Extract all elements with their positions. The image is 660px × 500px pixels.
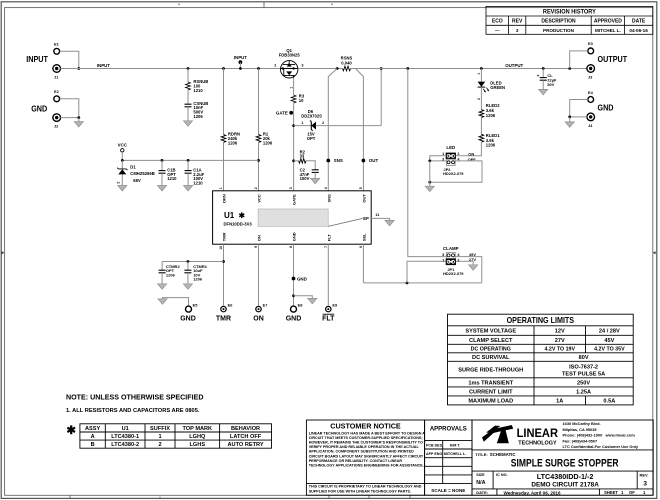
svg-text:KIM T.: KIM T. [450,444,461,448]
wire E3 to output rail [570,51,588,69]
svg-text:VERIFY PROPER AND RELIABLE OPE: VERIFY PROPER AND RELIABLE OPERATION IN … [309,445,420,449]
junction J2 ground node [77,116,80,119]
resistor R2 [294,160,299,162]
svg-text:E4: E4 [588,90,594,95]
resistor RSNS [342,66,350,71]
junction JP2 ground node lower [428,181,431,184]
wire RDRN branch upper [223,69,225,135]
svg-text:GND: GND [292,232,297,241]
capacitor CSNUB [185,104,192,107]
svg-text:+: + [537,74,540,79]
svg-text:PRODUCTION: PRODUCTION [543,28,575,33]
wire GND pin to E8 [293,244,295,305]
diode D1 CMHZ5266B zener [117,160,127,185]
svg-text:1ms TRANSIENT: 1ms TRANSIENT [468,380,513,386]
assembly option table [80,424,272,448]
terminal E5 [186,306,192,312]
wire CTMR1 to ground [187,273,189,284]
wire JP1 pin 2 to ground [456,260,474,262]
svg-text:TMR: TMR [216,316,231,323]
svg-text:ON: ON [468,151,474,156]
customer notice block [306,420,424,495]
wire DLED to RLED2 [480,87,482,110]
svg-text:FLT: FLT [326,234,331,242]
svg-text:SCALE = NONE: SCALE = NONE [431,488,465,493]
svg-text:CIRCUIT BOARD LAYOUT MAY SIGNI: CIRCUIT BOARD LAYOUT MAY SIGNIFICANTLY A… [309,454,424,458]
op-amp U1 LTC4380 DFN10DD-3X3 [213,191,372,244]
svg-text:27V: 27V [555,338,565,344]
capacitor CL [542,69,544,78]
svg-text:24 / 28V: 24 / 28V [599,329,620,335]
svg-text:Milpitas, CA 95035: Milpitas, CA 95035 [563,427,598,432]
svg-text:TITLE:: TITLE: [475,452,487,457]
svg-text:1206: 1206 [166,272,176,277]
svg-text:DC SURVIVAL: DC SURVIVAL [472,355,510,361]
svg-text:68V: 68V [133,178,141,183]
svg-text:1206: 1206 [193,114,203,119]
svg-text:Fax: (408)434-0507: Fax: (408)434-0507 [563,438,598,443]
svg-text:OUT: OUT [362,194,367,203]
terminal E9 [326,306,331,311]
svg-text:1: 1 [442,259,444,263]
svg-text:DATE: DATE [632,19,646,25]
svg-text:FLT: FLT [322,316,335,323]
svg-text:HOWEVER, IT REMAINS THE CUSTOM: HOWEVER, IT REMAINS THE CUSTOMER’S RESPO… [309,441,423,445]
svg-text:A: A [91,434,95,440]
resistor R1 [256,134,261,142]
svg-text:VCC: VCC [257,194,262,203]
ground at CTMR1 [183,284,192,289]
junction C1B [161,159,164,162]
wire E2 to J2 node [60,99,79,118]
svg-text:1.25A: 1.25A [576,389,591,395]
svg-text:80V: 80V [579,355,589,361]
svg-text:2: 2 [477,98,481,100]
wire JP2 pin 4 loop [430,161,482,182]
svg-text:SUFFIX: SUFFIX [150,426,170,432]
svg-text:1206: 1206 [228,140,238,145]
svg-text:OF: OF [629,490,635,495]
wire kelvin SNS [328,69,337,191]
wire E5 to ground [163,298,189,306]
svg-text:DDZ9702S: DDZ9702S [301,114,322,119]
operating limits table [448,314,634,405]
svg-text:GND: GND [598,104,614,113]
svg-text:N/A: N/A [476,480,485,486]
junction SEL at JP1 vertical [406,282,409,285]
svg-text:LINEAR TECHNOLOGY HAS MADE A B: LINEAR TECHNOLOGY HAS MADE A BEST EFFORT… [309,432,426,436]
svg-text:DESCRIPTION: DESCRIPTION [541,19,576,25]
svg-text:SNS: SNS [326,194,331,203]
svg-text:LTC4380-2: LTC4380-2 [111,442,139,448]
svg-text:HD2X2-079: HD2X2-079 [443,171,464,176]
svg-text:DEMO CIRCUIT 2178A: DEMO CIRCUIT 2178A [531,481,599,488]
svg-text:SEL: SEL [362,233,367,241]
wire DLED branch [480,69,482,82]
svg-text:GREEN: GREEN [490,85,505,90]
wire RDRN to U1 pin 1 [223,142,225,190]
terminal J2 [53,114,61,122]
wire D6 cathode to output rail [380,69,382,126]
ground at J4 [569,117,571,122]
svg-text:4.2V TO 35V: 4.2V TO 35V [594,347,625,353]
wire RSNS to output rail [351,68,587,70]
wire C1A to ground [187,173,189,185]
junction D6 anode [292,124,295,127]
svg-text:50V: 50V [547,82,554,87]
wire R3 to GATE node [293,103,295,191]
approvals block [425,420,472,495]
Linear Technology logo [482,425,513,443]
wire Q1 source to RSNS [298,68,343,70]
svg-text:04-06-16: 04-06-16 [629,28,648,33]
ground at EP [385,220,394,225]
svg-text:SYSTEM VOLTAGE: SYSTEM VOLTAGE [465,329,516,335]
wire FLT to E9 [327,244,329,305]
svg-text:OUTPUT: OUTPUT [598,55,628,64]
svg-text:U1: U1 [122,426,129,432]
svg-text:SUPPLIED FOR USE WITH LINEAR T: SUPPLIED FOR USE WITH LINEAR TECHNOLOGY … [309,490,411,494]
svg-text:3: 3 [289,187,293,189]
svg-text:0.040: 0.040 [341,60,352,65]
terminal E6 [221,306,226,311]
svg-text:SNS: SNS [334,158,343,163]
svg-text:3: 3 [516,28,519,33]
svg-text:U1: U1 [224,211,235,220]
capacitor C1B [161,160,163,170]
junction output to JP1 vertical [406,67,409,70]
svg-text:1: 1 [289,87,293,89]
ground at J2 [78,118,80,122]
border zone ticks [70,2,410,499]
svg-text:DATE:: DATE: [476,490,488,495]
diode DLED green LED [478,82,490,93]
svg-text:4.2V TO 19V: 4.2V TO 19V [544,347,575,353]
svg-text:CURRENT LIMIT: CURRENT LIMIT [469,389,513,395]
svg-text:1: 1 [477,73,481,75]
svg-text:1210: 1210 [193,88,203,93]
wire Q1 gate down [293,78,295,95]
svg-text:EP: EP [363,216,369,221]
svg-text:INPUT: INPUT [26,55,48,64]
resistor RLED1 [479,134,484,142]
wire kelvin OUT [355,69,363,191]
wire RSNUB branch [187,69,189,83]
ground at CL [539,89,548,94]
svg-text:3: 3 [301,64,303,68]
terminal E1 [54,48,60,54]
wire RSNUB to CSNUB [187,90,189,104]
revision history table [486,6,653,34]
wire TMR to E6 [223,244,225,305]
svg-text:APPLICATION. COMPONENT SUBSTI: APPLICATION. COMPONENT SUBSTITUTION AND … [309,450,414,454]
svg-text:12V: 12V [555,329,565,335]
junction R1 branch [257,67,260,70]
wire JP2 pin 3 to ground node [430,160,447,162]
wire E1 to input rail [60,51,79,68]
svg-text:LTC4380IDD-1/-2: LTC4380IDD-1/-2 [537,472,594,481]
jumper JP1 HD2X2-079 [446,252,456,265]
svg-text:1206: 1206 [486,143,496,148]
resistor RLED2 [479,110,484,118]
svg-text:OPT: OPT [307,136,316,141]
wire CL to ground [542,80,544,89]
capacitor C2 [312,170,319,173]
svg-text:1206: 1206 [263,140,273,145]
diode D6 DDZ9702S zener [294,121,382,131]
net flag SNS [326,159,330,163]
ground at D1 [118,186,127,191]
terminal E3 [588,48,594,54]
svg-text:SIZE: SIZE [476,473,485,477]
junction E3 branch [568,67,571,70]
wire C2 to ground [314,172,316,178]
svg-text:AUTO RETRY: AUTO RETRY [228,442,264,448]
svg-text:GND: GND [31,105,47,114]
svg-text:27V: 27V [469,257,476,262]
svg-text:10: 10 [219,246,223,250]
wire CSNUB to ground [187,107,189,121]
junction CL branch [542,67,545,70]
svg-text:E1: E1 [54,42,60,47]
ground at C2 [311,178,320,183]
wire INPUT rail [60,68,280,70]
svg-text:11: 11 [375,213,379,217]
svg-text:1210: 1210 [193,181,203,186]
svg-text:6: 6 [359,246,363,248]
svg-text:2: 2 [158,442,161,448]
svg-text:E8: E8 [298,303,304,308]
svg-text:1210: 1210 [167,176,177,181]
svg-text:MITCHELL L.: MITCHELL L. [444,452,466,456]
junction RSNUB branch [187,67,190,70]
svg-text:ASSY: ASSY [85,426,101,432]
svg-text:2: 2 [457,259,459,263]
junction D6 to rail [380,67,383,70]
svg-text:DRN: DRN [222,194,227,203]
junction E8 ground branch [292,294,295,297]
svg-text:7: 7 [324,246,328,248]
ground at C1A [184,186,193,191]
svg-text:LGHQ: LGHQ [189,434,206,440]
svg-text:100V: 100V [300,176,310,181]
svg-text:GND: GND [297,276,307,281]
svg-text:0.5A: 0.5A [603,398,615,404]
svg-text:1A: 1A [556,398,563,404]
resistor RDRN [221,134,226,142]
svg-text:8: 8 [289,246,293,248]
terminal E2 [54,96,60,102]
svg-text:9: 9 [254,246,258,248]
svg-text:CIRCUIT THAT MEETS CUSTOMER-SU: CIRCUIT THAT MEETS CUSTOMER-SUPPLIED SPE… [309,436,423,440]
wire R1 to U1 pin 2 [258,142,260,190]
overline FLT [323,313,335,315]
svg-text:✱: ✱ [239,211,246,220]
svg-text:NOTE: UNLESS OTHERWISE SPECIFI: NOTE: UNLESS OTHERWISE SPECIFIED [66,392,204,401]
svg-text:OUTPUT: OUTPUT [505,63,523,68]
terminal E8 [291,306,297,312]
wire C1B to ground [161,173,163,185]
junction RDRN branch [222,67,225,70]
wire VCC rail [122,159,258,161]
wire JP1 pin 1 down to SEL line [407,261,446,283]
svg-text:SIMPLE SURGE STOPPER: SIMPLE SURGE STOPPER [511,457,619,469]
svg-text:TEST PULSE 5A: TEST PULSE 5A [562,372,605,378]
terminal E7 [256,306,261,311]
svg-text:ISO-7637-2: ISO-7637-2 [569,365,598,371]
junction JP2 ground node [428,160,431,163]
svg-text:2: 2 [322,121,324,125]
svg-text:VCC: VCC [118,143,128,148]
svg-text:CMHZ5266B: CMHZ5266B [130,171,154,176]
svg-text:E3: E3 [588,41,594,46]
wire R1 branch upper [258,69,260,135]
svg-text:4: 4 [324,187,328,189]
svg-text:LED: LED [446,145,455,150]
svg-text:PERFORMANCE OR RELIABILITY. C: PERFORMANCE OR RELIABILITY. CONTACT LINE… [309,459,403,463]
wire E4 to J4 ground node [570,100,588,117]
svg-text:LGHS: LGHS [190,442,206,448]
svg-text:TMR: TMR [222,232,227,241]
svg-text:APPROVED: APPROVED [594,19,622,25]
svg-text:GND: GND [286,316,302,323]
svg-text:D1: D1 [130,165,136,170]
terminal J3 [587,65,595,73]
junction DLED branch [480,67,483,70]
jumper JP2 HD2X2-079 [446,153,456,166]
capacitor CTMR2 [161,262,163,271]
svg-text:1: 1 [301,121,303,125]
svg-text:IC NO.: IC NO. [496,473,508,477]
terminal J4 [587,113,595,121]
terminal J1 [53,65,61,73]
svg-text:GATE: GATE [276,111,288,116]
svg-text:BEHAVIOR: BEHAVIOR [231,426,260,432]
svg-text:HD2X2-079: HD2X2-079 [443,271,464,276]
svg-text:—: — [495,28,500,33]
svg-text:Wednesday, April 06, 2016: Wednesday, April 06, 2016 [503,490,561,495]
wire JP2 pin 1 to ground node [430,156,446,161]
ground at CSNUB [183,121,192,126]
svg-text:REV.: REV. [640,472,649,477]
svg-text:SURGE RIDE-THROUGH: SURGE RIDE-THROUGH [458,368,523,374]
svg-text:5: 5 [359,187,363,189]
wire RLED2 to RLED1 [480,118,482,135]
junction CTMR1 [187,260,190,263]
wire EP to ground [371,218,389,220]
svg-text:PCB DES.: PCB DES. [426,444,443,448]
svg-text:CUSTOMER NOTICE: CUSTOMER NOTICE [330,422,401,431]
svg-text:3: 3 [442,253,444,257]
svg-text:1: 1 [158,434,161,440]
svg-text:33: 33 [300,154,305,159]
svg-text:E7: E7 [263,303,268,308]
svg-text:ECO: ECO [492,19,503,25]
svg-text:LTC Confidential-For Customer: LTC Confidential-For Customer Use Only [563,444,639,449]
wire R2 to C2 [306,161,315,170]
wire SEL to select line [362,244,364,283]
resistor RSNUB [186,82,191,90]
svg-text:E5: E5 [193,303,199,308]
junction VCC rail at R1 [257,159,260,162]
ground at JP2 [425,186,434,191]
svg-text:B: B [91,442,95,448]
svg-text:REV: REV [512,19,523,25]
svg-text:LATCH OFF: LATCH OFF [230,434,262,440]
wire CTMR2 to ground [161,273,163,284]
wire output rail to JP1 pin 3 [408,69,446,257]
net flag GND at U1 [292,277,296,281]
svg-text:Phone: (408)432-1900 www.lin: Phone: (408)432-1900 www.linear.com [563,433,636,438]
svg-text:OUT: OUT [369,158,379,163]
svg-text:SHEET: SHEET [604,490,618,495]
svg-text:FDB33N25: FDB33N25 [279,53,301,58]
wire ON to E7 [258,244,260,305]
svg-text:APP ENG.: APP ENG. [426,452,443,456]
svg-text:DFN10DD-3X3: DFN10DD-3X3 [224,221,253,226]
junction J4 ground node [568,116,571,119]
svg-text:1. ALL RESISTORS AND CAPACITOR: 1. ALL RESISTORS AND CAPACITORS ARE 0805… [66,408,200,414]
junction RSNS kelvin left [336,67,339,70]
svg-text:250V: 250V [577,380,590,386]
svg-text:2: 2 [274,64,276,68]
svg-text:MITCHEL L.: MITCHEL L. [595,28,621,33]
ground at C1B [157,186,166,191]
ground at CTMR2 [158,284,167,289]
junction VCC at D1 [121,159,124,162]
wire E8 branch to ground [294,296,313,299]
ground at E8 branch [308,298,317,303]
svg-text:1: 1 [219,187,223,189]
svg-text:45V: 45V [604,338,614,344]
terminal E4 [588,97,594,103]
wire SEL horizontal [363,282,481,284]
junction E1/J1 [77,67,80,70]
svg-text:CLAMP SELECT: CLAMP SELECT [469,338,513,344]
junction CTMR branch [222,260,225,263]
junction C1A [187,159,190,162]
svg-text:1206: 1206 [193,277,203,282]
svg-text:E9: E9 [332,303,338,308]
svg-text:INPUT: INPUT [234,55,247,60]
svg-text:SCHEMATIC: SCHEMATIC [490,452,517,457]
svg-text:MAXIMUM LOAD: MAXIMUM LOAD [468,398,513,404]
svg-text:APPROVALS: APPROVALS [430,426,467,432]
svg-text:10: 10 [299,98,304,103]
svg-text:INPUT: INPUT [97,63,110,68]
svg-text:REVISION HISTORY: REVISION HISTORY [543,9,597,16]
svg-text:TECHNOLOGY: TECHNOLOGY [518,441,557,447]
svg-text:2: 2 [117,182,121,184]
svg-text:✱: ✱ [66,425,76,437]
ground at JP1 pin 2 [472,261,474,265]
svg-text:CLAMP: CLAMP [443,246,459,251]
svg-text:THIS CIRCUIT IS PROPRIETARY TO: THIS CIRCUIT IS PROPRIETARY TO LINEAR TE… [309,485,422,489]
svg-text:ON: ON [253,316,264,323]
svg-text:LTC4380-1: LTC4380-1 [111,434,139,440]
svg-text:DC OPERATING: DC OPERATING [471,347,511,353]
svg-text:2: 2 [254,187,258,189]
net flag OUT [362,159,366,163]
capacitor CTMR1 [187,262,189,271]
svg-text:TOP MARK: TOP MARK [182,426,212,432]
resistor R3 [291,95,296,103]
capacitor C1A [187,160,189,170]
wire RLED1 to JP2 pin 2 [456,142,481,156]
svg-text:LINEAR: LINEAR [517,427,559,440]
svg-text:3: 3 [643,480,647,487]
junction INPUT flag [239,67,242,70]
